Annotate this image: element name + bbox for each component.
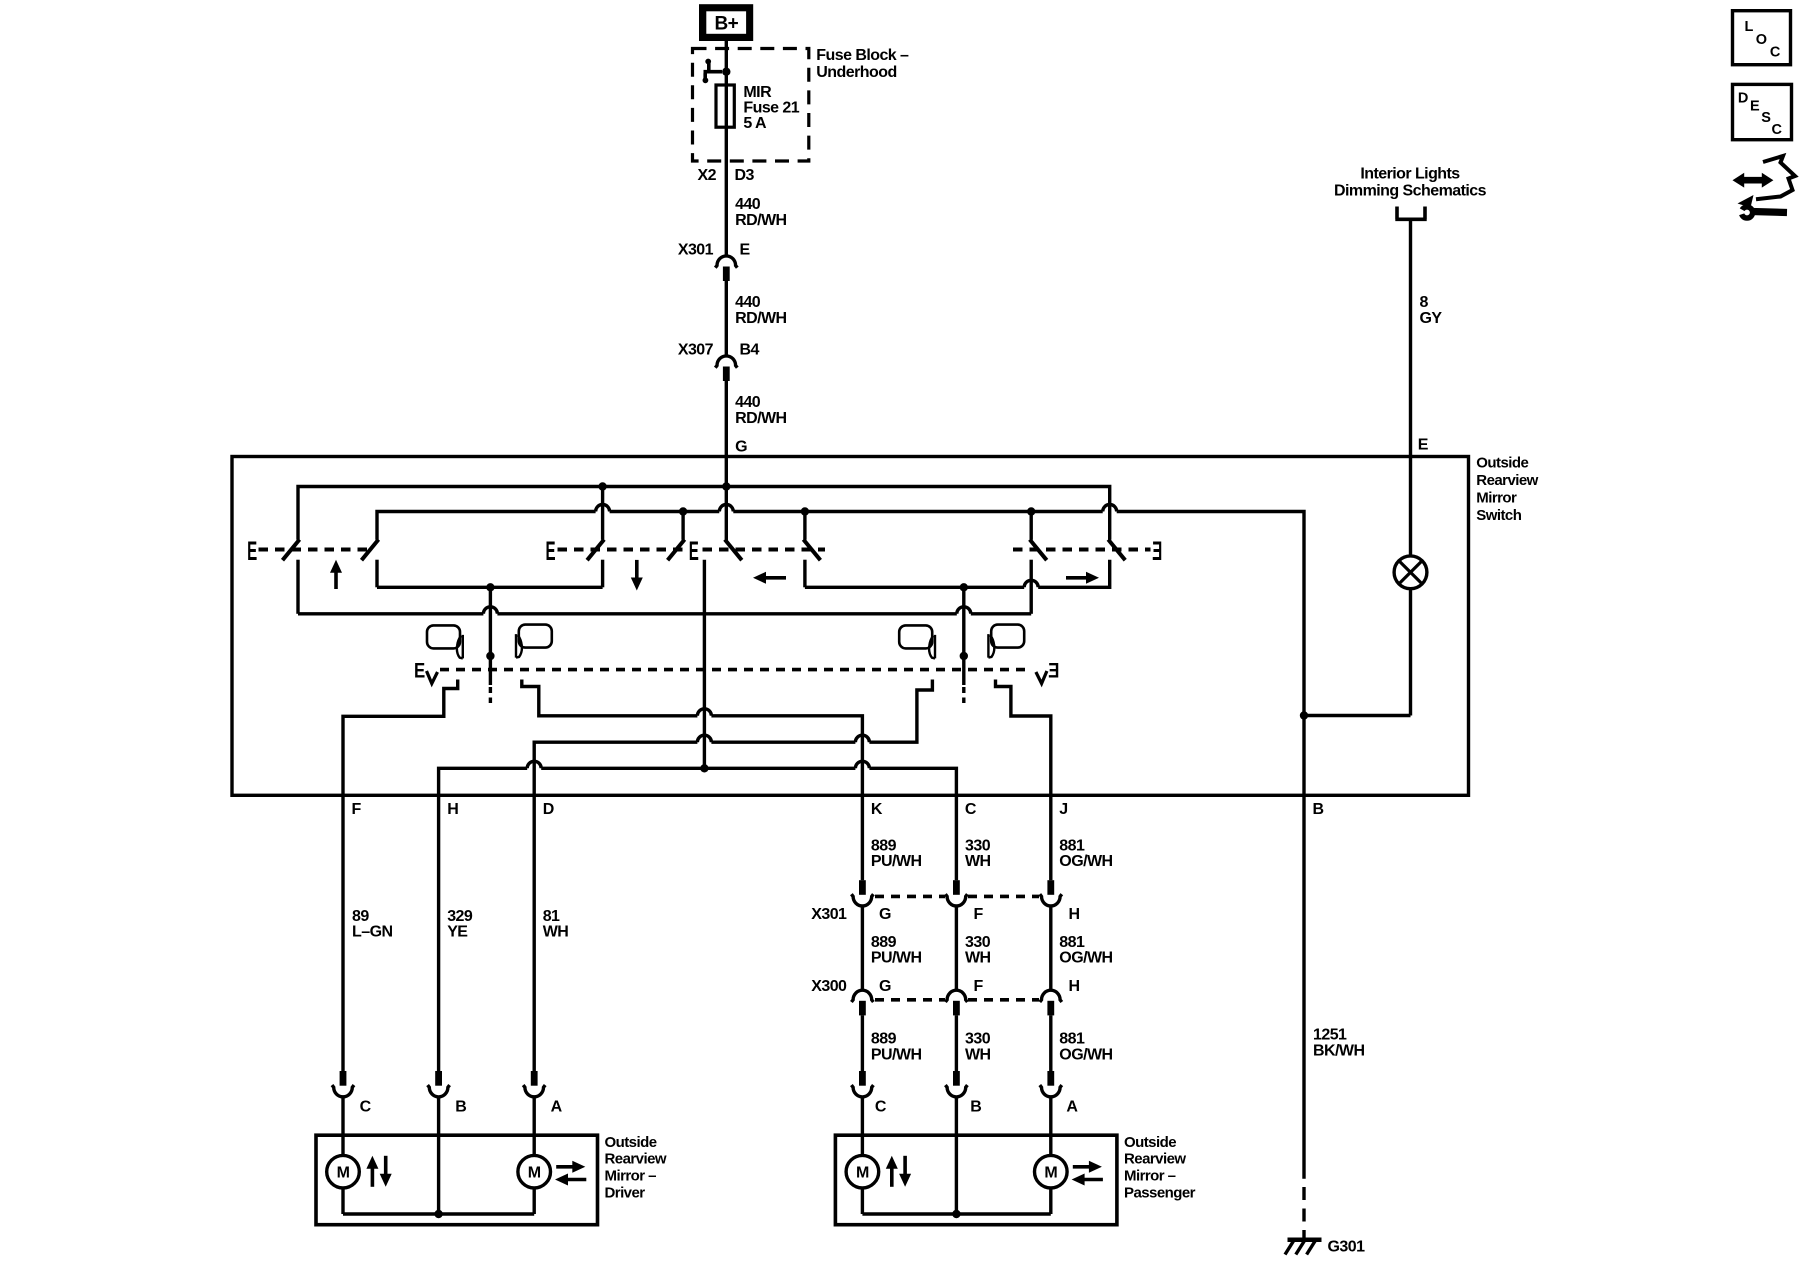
svg-text:89: 89 <box>352 908 369 925</box>
svg-text:B: B <box>455 1098 466 1115</box>
svg-text:440: 440 <box>735 294 761 311</box>
svg-text:330: 330 <box>965 934 991 951</box>
svg-text:Outside: Outside <box>1124 1134 1176 1151</box>
left/right arrows <box>572 1161 585 1173</box>
up/down arrows <box>366 1156 378 1169</box>
connector X301 E <box>715 256 737 268</box>
svg-text:WH: WH <box>965 853 991 870</box>
svg-text:WH: WH <box>965 1046 991 1063</box>
post 2R (from line2) <box>681 512 684 540</box>
svg-text:E: E <box>1153 535 1163 566</box>
motor vertical <box>846 1155 879 1188</box>
svg-text:Rearview: Rearview <box>1124 1151 1186 1168</box>
fuse clip <box>705 59 711 65</box>
svg-text:Driver: Driver <box>605 1184 646 1201</box>
svg-text:B4: B4 <box>740 341 760 358</box>
junction lamp/B wire <box>1300 711 1308 719</box>
blade 1R <box>362 540 379 561</box>
svg-text:E: E <box>740 241 751 258</box>
svg-text:M: M <box>528 1164 541 1181</box>
svg-text:BK/WH: BK/WH <box>1313 1043 1364 1060</box>
svg-text:OG/WH: OG/WH <box>1059 950 1112 967</box>
svg-text:5 A: 5 A <box>743 115 767 132</box>
connector passenger C <box>859 1071 866 1086</box>
connector X300 pin F <box>945 990 967 1002</box>
connector X300 pin G <box>851 990 873 1002</box>
svg-text:M: M <box>1044 1164 1057 1181</box>
blade 2R <box>668 540 685 561</box>
arrow right <box>1086 572 1099 584</box>
X301 dashed connector line <box>875 895 945 899</box>
svg-text:330: 330 <box>965 1031 991 1048</box>
svg-text:Underhood: Underhood <box>816 64 896 81</box>
mechanical coupling dashed lines with E markers <box>259 548 375 552</box>
DESC icon box <box>1733 84 1792 139</box>
off-page tag symbol <box>1395 207 1426 220</box>
svg-text:YE: YE <box>447 924 468 941</box>
connector X301 pin F <box>953 880 960 895</box>
svg-text:GY: GY <box>1420 310 1443 327</box>
svg-text:S: S <box>1761 110 1771 126</box>
svg-text:Switch: Switch <box>1476 507 1521 524</box>
svg-text:PU/WH: PU/WH <box>871 1046 922 1063</box>
fuse block dashed box <box>693 49 809 162</box>
junction line2/post2R <box>679 507 687 515</box>
connector driver C <box>340 1071 347 1086</box>
svg-text:C: C <box>1772 122 1783 138</box>
output rail H2 (horizontal drive) <box>805 560 1110 588</box>
wire 440 RD/WH <box>725 281 728 356</box>
common rail C : pin H to pin C <box>439 761 957 795</box>
left/right arrows <box>1089 1161 1102 1173</box>
motor horizontal <box>518 1155 551 1188</box>
wire 89 L-GN (pin F) <box>341 795 344 1071</box>
junction line1/post2L <box>598 482 606 490</box>
svg-text:RD/WH: RD/WH <box>735 310 786 327</box>
driver select left contact to pin F <box>343 680 458 796</box>
svg-text:Interior Lights: Interior Lights <box>1360 166 1460 183</box>
svg-text:PU/WH: PU/WH <box>871 950 922 967</box>
svg-text:J: J <box>1059 801 1067 818</box>
blade 3L (feed) <box>725 540 742 561</box>
svg-text:B: B <box>1313 801 1324 818</box>
junction line2/post4L <box>1027 507 1035 515</box>
connector passenger B <box>953 1071 960 1086</box>
svg-text:C: C <box>965 801 977 818</box>
stub 2L <box>601 560 604 588</box>
wire 440 RD/WH to switch pin G <box>725 381 728 541</box>
svg-text:D: D <box>543 801 554 818</box>
svg-text:M: M <box>856 1164 869 1181</box>
connector X301 pin H <box>1047 880 1054 895</box>
up/down arrows <box>886 1156 898 1169</box>
svg-text:RD/WH: RD/WH <box>735 212 786 229</box>
post 3R <box>803 512 806 540</box>
wire 81 WH (pin D) <box>533 795 536 1071</box>
svg-text:G: G <box>879 906 891 923</box>
svg-text:E: E <box>1750 99 1760 115</box>
svg-text:M: M <box>337 1164 350 1181</box>
svg-text:8: 8 <box>1420 294 1429 311</box>
svg-text:881: 881 <box>1059 1031 1085 1048</box>
wire 8xx to X301 (F) <box>955 795 958 880</box>
svg-text:E: E <box>1049 660 1060 683</box>
svg-text:330: 330 <box>965 837 991 854</box>
svg-text:G: G <box>735 439 747 456</box>
feed rail line1 <box>298 487 1110 540</box>
svg-text:PU/WH: PU/WH <box>871 853 922 870</box>
connector driver B <box>435 1071 442 1086</box>
junction line2/post3R <box>801 507 809 515</box>
connector X300 pin H <box>1040 990 1062 1002</box>
wire 8xx to X301 (H) <box>1049 795 1052 880</box>
blade 4L <box>1030 540 1047 561</box>
svg-text:Outside: Outside <box>605 1134 657 1151</box>
svg-text:X2: X2 <box>698 167 717 184</box>
svg-text:C: C <box>1770 44 1781 60</box>
wire 8xx to X301 (G) <box>861 795 864 880</box>
svg-text:G: G <box>879 978 891 995</box>
svg-text:G301: G301 <box>1328 1239 1366 1256</box>
post 2L (from line1) <box>601 487 604 540</box>
power symbol B+ <box>699 4 753 41</box>
svg-text:889: 889 <box>871 934 897 951</box>
svg-text:440: 440 <box>735 394 761 411</box>
wire 1251 BK/WH (pin B) to ground <box>1302 795 1305 1179</box>
svg-text:F: F <box>352 801 362 818</box>
ground rail line2 <box>377 505 1304 796</box>
outside rearview mirror switch box <box>232 457 1469 796</box>
X300 dashed connector line <box>875 998 945 1002</box>
svg-text:X300: X300 <box>811 978 847 995</box>
svg-text:F: F <box>974 978 984 995</box>
ground G301 <box>1288 1238 1322 1243</box>
wire fuse to X2/D3 <box>725 127 728 256</box>
arrow down <box>631 578 643 591</box>
selector dashed line <box>440 668 1030 672</box>
passenger mirror motor assembly <box>835 1135 1117 1225</box>
stub 1R <box>375 560 378 588</box>
svg-text:E: E <box>1418 437 1429 454</box>
lamp wire to B net <box>1409 589 1412 716</box>
svg-text:Mirror: Mirror <box>1476 490 1517 507</box>
svg-text:81: 81 <box>543 908 560 925</box>
svg-text:X301: X301 <box>811 906 847 923</box>
svg-text:881: 881 <box>1059 837 1085 854</box>
svg-text:D: D <box>1738 90 1748 106</box>
blade 4R <box>1108 540 1125 561</box>
svg-text:L–GN: L–GN <box>352 924 392 941</box>
svg-text:MIR: MIR <box>743 84 772 101</box>
svg-text:H: H <box>1069 906 1080 923</box>
mirror icon driver A <box>427 625 463 658</box>
driver mirror select tap <box>489 587 492 685</box>
svg-text:440: 440 <box>735 196 761 213</box>
motor common rail <box>861 1188 864 1214</box>
svg-text:329: 329 <box>447 908 473 925</box>
junction feed/line1 <box>722 482 730 490</box>
connector X301 pin G <box>859 880 866 895</box>
connector X307 B4 <box>715 356 737 368</box>
svg-text:E: E <box>247 535 257 566</box>
motor vertical <box>327 1155 360 1188</box>
svg-text:Fuse 21: Fuse 21 <box>743 100 799 117</box>
junction common stub / rail C <box>700 764 708 772</box>
arrow left <box>753 572 766 584</box>
rail H3 (unit1L to unit4L) <box>298 607 1031 614</box>
svg-text:OG/WH: OG/WH <box>1059 1046 1112 1063</box>
driver select right contact to pin K <box>522 680 863 796</box>
svg-text:E: E <box>546 535 556 566</box>
passenger mirror select tap <box>962 587 965 685</box>
common contact stub (center) <box>703 560 706 769</box>
stub 3R <box>803 560 806 588</box>
wire 329 YE (pin H) <box>437 795 440 1071</box>
svg-text:B: B <box>970 1098 981 1115</box>
connector driver A <box>531 1071 538 1086</box>
svg-text:Rearview: Rearview <box>605 1151 667 1168</box>
svg-text:1251: 1251 <box>1313 1027 1347 1044</box>
svg-text:Fuse Block –: Fuse Block – <box>816 47 909 64</box>
wire 8 GY <box>1409 219 1412 556</box>
navigation arrows + wrench icon <box>1733 173 1774 188</box>
connector passenger A <box>1047 1071 1054 1086</box>
svg-text:RD/WH: RD/WH <box>735 410 786 427</box>
svg-text:Outside: Outside <box>1476 454 1528 471</box>
stub 1L <box>296 560 299 614</box>
svg-text:X307: X307 <box>678 341 714 358</box>
svg-text:F: F <box>974 906 984 923</box>
svg-text:C: C <box>875 1098 887 1115</box>
svg-text:X301: X301 <box>678 241 714 258</box>
svg-text:E: E <box>414 660 425 683</box>
svg-text:Passenger: Passenger <box>1124 1184 1196 1201</box>
svg-text:H: H <box>1069 978 1080 995</box>
fuse MIR Fuse 21 5A <box>716 85 734 127</box>
svg-text:O: O <box>1756 32 1767 48</box>
svg-text:Rearview: Rearview <box>1476 472 1538 489</box>
mirror icon passenger A <box>899 625 935 658</box>
wire B+ to fuse block <box>725 41 728 85</box>
LOC icon box <box>1733 11 1791 65</box>
passenger select right contact to pin J <box>996 680 1051 796</box>
svg-text:889: 889 <box>871 1031 897 1048</box>
illumination lamp <box>1394 556 1427 589</box>
mirror icon driver B <box>516 625 552 658</box>
svg-text:E: E <box>689 535 699 566</box>
arrow up <box>330 560 342 573</box>
output rail H1 (vertical drive) <box>377 586 603 589</box>
driver mirror motor assembly <box>316 1135 598 1225</box>
svg-text:889: 889 <box>871 837 897 854</box>
svg-text:Mirror –: Mirror – <box>1124 1168 1176 1185</box>
svg-text:H: H <box>447 801 458 818</box>
blade 2L <box>587 540 604 561</box>
svg-text:L: L <box>1745 19 1754 35</box>
svg-text:WH: WH <box>965 950 991 967</box>
svg-text:A: A <box>1066 1098 1078 1115</box>
mirror icon passenger B <box>988 625 1024 658</box>
svg-text:OG/WH: OG/WH <box>1059 853 1112 870</box>
stub 4L <box>1029 560 1032 614</box>
svg-text:B+: B+ <box>714 14 738 35</box>
svg-text:C: C <box>360 1098 372 1115</box>
passenger select left contact to pin D <box>534 680 932 796</box>
svg-text:A: A <box>551 1098 563 1115</box>
svg-text:Dimming Schematics: Dimming Schematics <box>1334 183 1487 200</box>
svg-text:K: K <box>871 801 883 818</box>
post 4L <box>1029 512 1032 540</box>
svg-text:881: 881 <box>1059 934 1085 951</box>
motor common rail <box>341 1188 344 1214</box>
motor horizontal <box>1035 1155 1068 1188</box>
blade 1L <box>283 540 300 561</box>
blade 3R <box>803 540 820 561</box>
svg-text:WH: WH <box>543 924 569 941</box>
svg-text:D3: D3 <box>735 167 755 184</box>
svg-text:Mirror –: Mirror – <box>605 1168 657 1185</box>
